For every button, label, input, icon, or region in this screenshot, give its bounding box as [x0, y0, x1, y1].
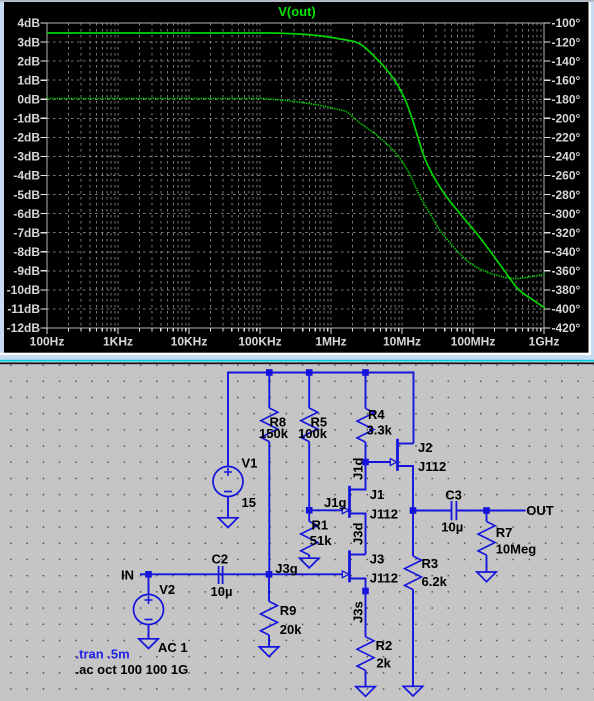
wire J3 drain lead	[350, 554, 366, 556]
wire J1 drain up to node J1d	[350, 462, 366, 490]
wire V2 top	[148, 574, 150, 594]
svg-text:100Hz: 100Hz	[30, 335, 65, 349]
svg-text:J1g: J1g	[324, 495, 346, 510]
wire R8 bottom to input node	[268, 442, 270, 575]
svg-text:-120°: -120°	[552, 35, 581, 49]
wire C3 to OUT	[457, 510, 525, 512]
svg-text:J1d: J1d	[351, 458, 366, 480]
svg-text:J112: J112	[370, 507, 398, 522]
svg-text:-320°: -320°	[552, 226, 581, 240]
svg-text:-5dB: -5dB	[13, 188, 40, 202]
svg-text:.ac oct 100 100 1G: .ac oct 100 100 1G	[76, 662, 189, 677]
svg-text:100k: 100k	[298, 426, 328, 441]
wire R5 top	[308, 373, 310, 409]
svg-text:10µ: 10µ	[211, 584, 233, 599]
resistor R8	[261, 408, 278, 442]
svg-text:-360°: -360°	[552, 264, 581, 278]
transistor J3 channel bar	[348, 550, 351, 582]
svg-text:J112: J112	[370, 571, 398, 586]
wire to C3	[413, 510, 451, 512]
ground V1	[218, 518, 237, 528]
wire J1 source down to J3 drain	[350, 514, 366, 555]
wire R5 bottom to node J1g	[308, 442, 310, 511]
ground R2	[356, 687, 375, 697]
svg-text:R4: R4	[368, 407, 385, 422]
bottom frequency labels	[30, 335, 560, 349]
svg-text:R7: R7	[496, 525, 513, 540]
axis tick marks	[41, 23, 551, 334]
svg-text:-400°: -400°	[552, 302, 581, 316]
svg-text:C3: C3	[445, 488, 462, 503]
wire J3 source down to R2	[350, 579, 366, 637]
resistor R3	[405, 556, 422, 590]
schematic background	[0, 364, 594, 701]
wire R9 top	[268, 574, 270, 601]
svg-text:-420°: -420°	[552, 321, 581, 335]
trace V(out) phase dotted	[47, 99, 545, 279]
svg-text:6.2k: 6.2k	[422, 574, 448, 589]
svg-text:15: 15	[242, 495, 256, 510]
V1 plus sign	[224, 468, 232, 476]
svg-text:V(out): V(out)	[278, 4, 316, 19]
wire top rail	[228, 373, 414, 467]
svg-text:-1dB: -1dB	[13, 112, 40, 126]
svg-text:C2: C2	[212, 552, 229, 567]
svg-text:2dB: 2dB	[17, 54, 40, 68]
svg-text:4dB: 4dB	[17, 16, 40, 30]
svg-text:-140°: -140°	[552, 54, 581, 68]
junction dots	[145, 369, 490, 594]
svg-text:J3d: J3d	[351, 523, 366, 545]
transistor J3 gate arrow	[342, 571, 349, 578]
svg-text:100KHz: 100KHz	[238, 335, 281, 349]
resistor R7	[478, 522, 495, 556]
wire V1 bottom	[227, 497, 229, 518]
svg-text:10µ: 10µ	[441, 520, 463, 535]
right phase axis labels	[552, 16, 581, 335]
svg-text:1dB: 1dB	[17, 73, 40, 87]
wire J2 drain lead	[398, 443, 414, 445]
svg-text:AC 1: AC 1	[158, 640, 188, 655]
svg-text:-6dB: -6dB	[13, 207, 40, 221]
svg-text:-160°: -160°	[552, 73, 581, 87]
waveform panel 3d border	[4, 2, 591, 355]
wire V2 bottom	[148, 625, 150, 639]
svg-text:-7dB: -7dB	[13, 226, 40, 240]
wire J2 source lead down	[398, 466, 414, 511]
svg-text:-4dB: -4dB	[13, 169, 40, 183]
svg-text:-240°: -240°	[552, 150, 581, 164]
plot frame	[47, 23, 544, 328]
svg-text:V1: V1	[242, 456, 258, 471]
svg-text:-100°: -100°	[552, 16, 581, 30]
svg-text:1MHz: 1MHz	[315, 335, 346, 349]
grid horizontal dashed lines	[47, 41, 544, 43]
svg-text:-380°: -380°	[552, 283, 581, 297]
wire node J1d to J2 gate	[366, 461, 391, 463]
wire R1 bottom	[308, 555, 310, 558]
svg-text:3dB: 3dB	[17, 35, 40, 49]
svg-text:-8dB: -8dB	[13, 245, 40, 259]
svg-text:-10dB: -10dB	[7, 283, 41, 297]
wire R9 bottom	[268, 635, 270, 647]
svg-text:2k: 2k	[376, 656, 391, 671]
svg-text:-220°: -220°	[552, 131, 581, 145]
resistor R2	[357, 637, 374, 671]
resistor R1	[301, 521, 318, 555]
waveform panel	[4, 2, 589, 353]
svg-text:J112: J112	[418, 459, 446, 474]
ground R3	[403, 686, 422, 696]
svg-text:OUT: OUT	[526, 503, 554, 518]
svg-text:-300°: -300°	[552, 207, 581, 221]
svg-text:R2: R2	[376, 638, 393, 653]
svg-text:0dB: 0dB	[17, 92, 40, 106]
ground R9	[259, 647, 278, 657]
svg-text:IN: IN	[121, 568, 134, 583]
wire R4 bottom to node J1d	[365, 442, 367, 462]
svg-text:-3dB: -3dB	[13, 150, 40, 164]
svg-text:R9: R9	[280, 603, 297, 618]
svg-text:3.3k: 3.3k	[367, 423, 393, 438]
resistor R9	[261, 601, 278, 635]
svg-text:-11dB: -11dB	[7, 302, 40, 316]
V2 plus sign	[145, 596, 153, 604]
ground R7	[477, 572, 496, 582]
svg-text:-200°: -200°	[552, 112, 581, 126]
voltage source V1 circle	[213, 467, 243, 497]
wire R7 bottom	[486, 555, 488, 572]
svg-text:20k: 20k	[280, 622, 302, 637]
svg-text:10MHz: 10MHz	[383, 335, 421, 349]
svg-text:1GHz: 1GHz	[529, 335, 560, 349]
svg-text:-2dB: -2dB	[13, 131, 40, 145]
voltage source V2 circle	[134, 595, 164, 625]
svg-text:V2: V2	[159, 582, 175, 597]
transistor J1 gate arrow	[342, 507, 349, 514]
capacitor C3	[451, 501, 453, 520]
wire R7 top	[486, 511, 488, 522]
wire input IN to J3 gate	[140, 573, 342, 575]
transistor J2 gate arrow	[390, 459, 397, 466]
schematic text labels	[76, 407, 554, 677]
wire node J1g to J1 gate	[309, 509, 342, 511]
transistor J2 channel bar	[396, 439, 399, 471]
svg-text:J3g: J3g	[275, 561, 297, 576]
ground V2	[139, 639, 158, 649]
trace V(out) magnitude solid	[47, 33, 545, 308]
svg-text:J1: J1	[370, 487, 384, 502]
svg-text:-260°: -260°	[552, 169, 581, 183]
wire R4 top	[365, 373, 367, 409]
wire R2 bottom	[365, 670, 367, 686]
svg-text:1KHz: 1KHz	[103, 335, 133, 349]
svg-text:J3: J3	[370, 552, 384, 567]
left dB axis labels	[7, 16, 41, 335]
svg-text:-12dB: -12dB	[7, 321, 41, 335]
svg-text:-9dB: -9dB	[13, 264, 40, 278]
resistor R4	[357, 409, 374, 443]
ground R1	[300, 558, 319, 568]
svg-text:R3: R3	[422, 556, 439, 571]
V2 minus sign	[145, 619, 153, 621]
svg-text:-340°: -340°	[552, 245, 581, 259]
capacitor C2	[218, 566, 220, 584]
transistor J1 channel bar	[348, 486, 351, 518]
wire R3 bottom	[412, 590, 414, 687]
svg-text:100MHz: 100MHz	[451, 335, 496, 349]
grid vertical dashed lines	[67, 23, 69, 328]
svg-text:R1: R1	[312, 518, 329, 533]
svg-text:-180°: -180°	[552, 92, 581, 106]
svg-text:10KHz: 10KHz	[171, 335, 208, 349]
svg-text:J2: J2	[418, 440, 432, 455]
svg-text:150k: 150k	[259, 426, 289, 441]
schematic dot grid	[0, 364, 594, 701]
svg-text:51k: 51k	[310, 533, 332, 548]
V1 minus sign	[224, 491, 232, 493]
svg-text:.tran .5m: .tran .5m	[76, 647, 130, 662]
svg-text:-280°: -280°	[552, 188, 581, 202]
separator bands below plot	[0, 353, 591, 355]
wire R1 top	[308, 510, 310, 521]
svg-text:10Meg: 10Meg	[496, 542, 537, 557]
resistor R5	[301, 408, 318, 442]
wire R8 top	[268, 373, 270, 409]
wire node out-j2 to R3	[412, 511, 414, 557]
svg-text:J3s: J3s	[351, 601, 366, 623]
